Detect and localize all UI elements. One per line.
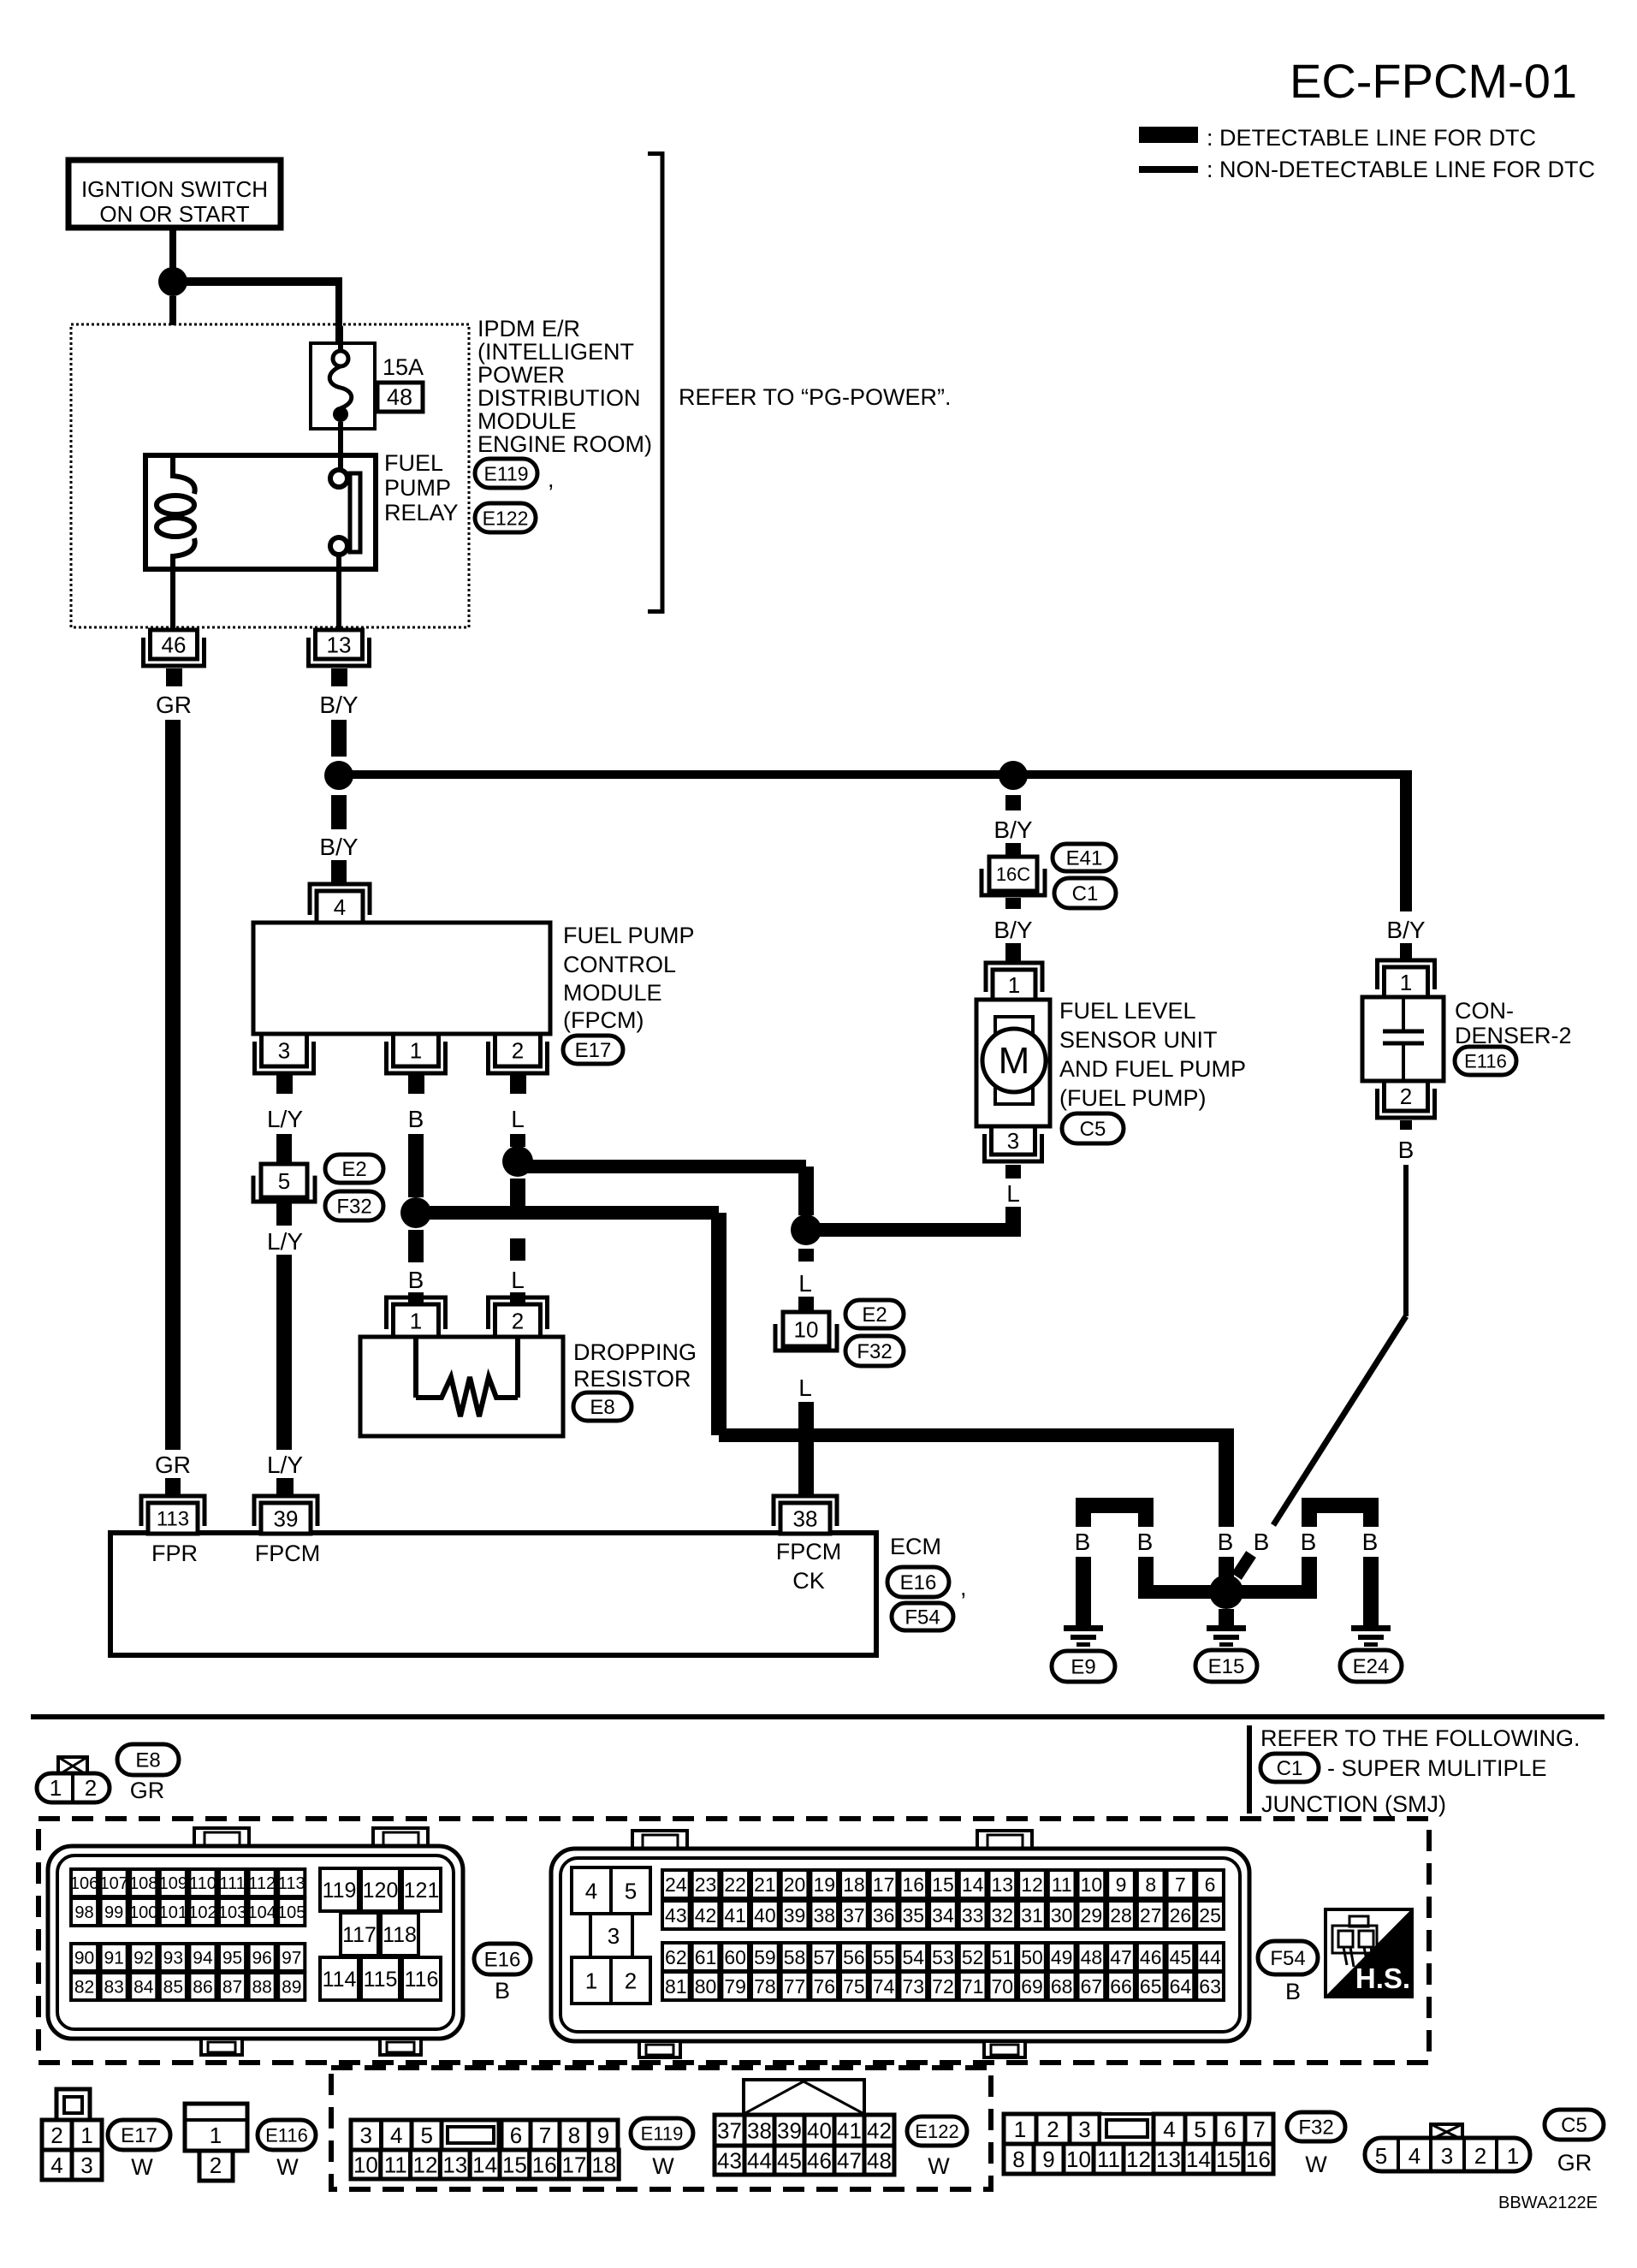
svg-text:PUMP: PUMP [384, 475, 451, 501]
svg-text:MODULE: MODULE [563, 980, 662, 1006]
wire junction down to IPDM coil [169, 296, 176, 325]
svg-text:B: B [1398, 1137, 1415, 1163]
svg-text:108: 108 [129, 1874, 157, 1893]
svg-text:84: 84 [133, 1978, 154, 1998]
condenser connector 2 [1378, 1081, 1435, 1130]
svg-text:E17: E17 [121, 2124, 157, 2147]
connector C5 bowtie symbol [1431, 2124, 1462, 2140]
svg-text:15: 15 [1216, 2146, 1241, 2172]
connector E116 oval id [258, 2120, 316, 2150]
svg-text:E17: E17 [575, 1039, 612, 1062]
svg-text:106: 106 [70, 1874, 98, 1893]
wire L/Y below connector 5 [276, 1202, 292, 1226]
condenser-2 body [1362, 997, 1444, 1081]
svg-text:2: 2 [85, 1775, 97, 1801]
svg-text:82: 82 [74, 1978, 94, 1998]
svg-text:F32: F32 [336, 1196, 371, 1219]
note refer to PG-POWER [679, 384, 952, 410]
svg-text:IPDM E/R: IPDM E/R [477, 316, 580, 341]
svg-text:120: 120 [363, 1879, 399, 1903]
connector 16C SMJ [982, 857, 1045, 895]
svg-text:,: , [548, 466, 555, 492]
connector E2 oval near 5 [325, 1155, 383, 1183]
svg-text:RESISTOR: RESISTOR [573, 1366, 691, 1392]
IPDM label [477, 316, 652, 457]
fuel pump motor M [982, 1029, 1046, 1092]
svg-text:L: L [511, 1106, 525, 1132]
svg-text:6: 6 [510, 2123, 522, 2148]
E16 grid right rows [320, 1868, 441, 2000]
pin 13 of IPDM [309, 630, 370, 686]
label B/Y above condenser [1386, 917, 1425, 943]
svg-text:42: 42 [695, 1904, 717, 1927]
svg-text:12: 12 [1126, 2146, 1151, 2172]
svg-text:104: 104 [247, 1903, 276, 1922]
svg-text:B/Y: B/Y [319, 834, 358, 860]
figure code BBWA2122E [1498, 2194, 1598, 2212]
svg-text:15A: 15A [383, 354, 424, 380]
svg-text:15: 15 [932, 1873, 954, 1896]
svg-text:32: 32 [992, 1904, 1014, 1927]
svg-text:E41: E41 [1066, 847, 1103, 870]
svg-text:B: B [1075, 1529, 1091, 1555]
wire B/Y to condenser [1400, 771, 1412, 911]
ground E9 symbol [1064, 1625, 1103, 1647]
wire right bridge left leg upper [1302, 1513, 1317, 1527]
svg-text:1: 1 [585, 1968, 597, 1993]
condenser connector 1 [1378, 960, 1435, 997]
connector E17 oval [563, 1036, 623, 1064]
svg-text:119: 119 [323, 1879, 357, 1903]
svg-text:1: 1 [1507, 2143, 1519, 2169]
svg-text:47: 47 [837, 2147, 862, 2173]
node L junction [502, 1146, 533, 1177]
svg-text:19: 19 [813, 1873, 835, 1896]
label L/Y below pin 3 [267, 1106, 303, 1132]
label B/Y [319, 692, 358, 718]
svg-text:47: 47 [1110, 1946, 1132, 1968]
svg-text:1: 1 [410, 1308, 422, 1333]
svg-text:1: 1 [410, 1037, 422, 1063]
svg-text:B/Y: B/Y [993, 917, 1032, 943]
svg-text:100: 100 [129, 1903, 157, 1922]
condenser label [1455, 998, 1572, 1048]
svg-text:96: 96 [252, 1949, 271, 1968]
connector E16 oval id [474, 1944, 531, 1974]
connector F54 oval [892, 1603, 953, 1630]
svg-text:5: 5 [1194, 2117, 1206, 2142]
connector E17 face [42, 2089, 102, 2180]
svg-text:109: 109 [159, 1874, 187, 1893]
fuel pump outer box [976, 1000, 1050, 1126]
wire L pump horizontal [806, 1223, 1013, 1237]
wire B to E9 lower [1076, 1557, 1091, 1625]
svg-text:F54: F54 [905, 1606, 940, 1630]
svg-text:B: B [495, 1978, 510, 2004]
svg-text:43: 43 [717, 2147, 742, 2173]
svg-text:112: 112 [248, 1874, 276, 1893]
node B/Y junction at fuel pump branch [999, 761, 1028, 790]
label L below connector 10 [798, 1374, 812, 1401]
label B/Y above connector 4 [319, 834, 358, 860]
legend detectable line sample [1139, 127, 1198, 143]
pin 39 of ECM [254, 1496, 317, 1534]
fuse rating 15A [383, 354, 424, 380]
svg-text:24: 24 [665, 1873, 687, 1896]
svg-text:F32: F32 [1298, 2117, 1333, 2140]
wire L pin2 down [510, 1134, 525, 1147]
svg-text:11: 11 [1052, 1873, 1072, 1896]
svg-text:3: 3 [360, 2123, 372, 2148]
wire L corner down to node [798, 1167, 814, 1215]
svg-text:10: 10 [353, 2152, 378, 2177]
wire B condenser thin [1403, 1165, 1409, 1316]
svg-text:69: 69 [1021, 1975, 1043, 1998]
svg-text:35: 35 [902, 1904, 924, 1927]
label W for E17 [131, 2154, 153, 2180]
svg-text:B: B [1362, 1529, 1379, 1555]
svg-text:49: 49 [1051, 1946, 1073, 1968]
svg-text:B/Y: B/Y [319, 692, 358, 718]
svg-text:L/Y: L/Y [267, 1106, 303, 1132]
pin 2 of FPCM [489, 1034, 548, 1094]
svg-text:E122: E122 [483, 507, 529, 529]
svg-text:L: L [1006, 1180, 1020, 1207]
svg-text:20: 20 [784, 1873, 806, 1896]
wire GR stub to pin 113 [165, 1478, 181, 1496]
svg-text:7: 7 [1253, 2117, 1265, 2142]
connector F54 oval id [1258, 1941, 1318, 1974]
svg-text:23: 23 [695, 1873, 717, 1896]
svg-text:H.S.: H.S. [1355, 1962, 1410, 1994]
svg-text:102: 102 [188, 1903, 216, 1922]
connector E119 face [351, 2120, 619, 2179]
svg-text:BBWA2122E: BBWA2122E [1498, 2194, 1598, 2212]
fuse 15A 48 box [311, 343, 375, 429]
F54 grid top bank [662, 1870, 1224, 1929]
label L below pump [1006, 1180, 1020, 1207]
label B E9 [1075, 1529, 1091, 1555]
svg-text:B: B [1301, 1529, 1317, 1555]
label GR for E8 [130, 1778, 165, 1803]
wire stub pin 39 [278, 1478, 294, 1496]
fuse number 48 box [377, 383, 423, 412]
wire junction to IPDM fuse (horizontal) [173, 277, 342, 286]
svg-text:11: 11 [384, 2152, 407, 2177]
resistor element R [416, 1337, 518, 1416]
svg-text:B/Y: B/Y [1386, 917, 1425, 943]
label GR [156, 692, 192, 718]
dropping resistor box [360, 1337, 563, 1436]
svg-text:B: B [1254, 1529, 1270, 1555]
svg-text:18: 18 [843, 1873, 865, 1896]
svg-text:,: , [960, 1575, 967, 1600]
svg-text:58: 58 [784, 1946, 806, 1968]
svg-text:M: M [999, 1040, 1030, 1082]
wire B/Y below 16C [1005, 898, 1021, 909]
svg-text:C1: C1 [1277, 1757, 1303, 1780]
svg-text:48: 48 [387, 384, 412, 410]
node L junction to ECM [791, 1214, 821, 1245]
svg-text:ON OR START: ON OR START [99, 201, 249, 227]
svg-text:78: 78 [754, 1975, 776, 1998]
svg-text:99: 99 [104, 1903, 123, 1922]
svg-text:13: 13 [1156, 2146, 1181, 2172]
svg-text:2: 2 [50, 2123, 62, 2148]
svg-text:(INTELLIGENT: (INTELLIGENT [477, 339, 634, 365]
svg-text:41: 41 [837, 2117, 862, 2143]
label B above resistor [408, 1267, 424, 1293]
svg-text:115: 115 [364, 1968, 398, 1992]
wire B left bridge to junction [1138, 1557, 1226, 1599]
svg-text:W: W [1305, 2152, 1327, 2177]
svg-text:- SUPER MULITIPLE: - SUPER MULITIPLE [1327, 1755, 1547, 1781]
svg-text:48: 48 [1081, 1946, 1103, 1968]
svg-text:4: 4 [334, 894, 346, 920]
H.S. hand symbol logo [1326, 1909, 1412, 1997]
svg-text:4: 4 [585, 1878, 597, 1903]
svg-text:1: 1 [80, 2123, 92, 2148]
label L/Y mid [267, 1228, 303, 1255]
connector E116 face [185, 2104, 247, 2181]
pin 1 of FPCM [387, 1034, 446, 1094]
svg-text:9: 9 [1042, 2146, 1054, 2172]
svg-text:45: 45 [1170, 1946, 1192, 1968]
svg-text:77: 77 [784, 1975, 806, 1998]
wire B/Y distribution horizontal [339, 770, 1412, 779]
svg-text:86: 86 [193, 1978, 212, 1998]
ECM label [890, 1534, 941, 1559]
svg-text:3: 3 [80, 2152, 92, 2178]
svg-text:30: 30 [1051, 1904, 1073, 1927]
svg-text:37: 37 [717, 2117, 742, 2143]
svg-text:81: 81 [665, 1975, 687, 1998]
svg-text:E8: E8 [590, 1396, 614, 1419]
svg-text:10: 10 [1081, 1873, 1103, 1896]
svg-text:40: 40 [754, 1904, 776, 1927]
svg-text:57: 57 [813, 1946, 835, 1968]
wire B right bridge left leg [1302, 1557, 1317, 1599]
capacitor symbol [1383, 999, 1424, 1079]
svg-text:101: 101 [159, 1903, 187, 1922]
svg-text:10: 10 [794, 1316, 819, 1342]
wire L/Y pin3 to connector 5 [276, 1134, 292, 1164]
svg-text:44: 44 [747, 2147, 772, 2173]
label FPCM CK pin38 [776, 1539, 842, 1594]
connector E8 bowtie symbol [58, 1757, 87, 1775]
wire B left bridge right leg upper [1138, 1513, 1154, 1527]
svg-text:76: 76 [813, 1975, 835, 1998]
wire B/Y into connector 4 [331, 860, 347, 885]
label B below pin 1 [408, 1106, 424, 1132]
svg-text:E2: E2 [341, 1158, 366, 1181]
wire B/Y below junction to 16C [1005, 795, 1021, 810]
wire L dash below crossing [510, 1238, 525, 1261]
svg-text:17: 17 [873, 1873, 895, 1896]
svg-text:68: 68 [1051, 1975, 1073, 1998]
svg-text:EC-FPCM-01: EC-FPCM-01 [1290, 54, 1577, 108]
connector E41 oval [1053, 844, 1116, 871]
svg-text:46: 46 [162, 632, 187, 657]
svg-text:FPCM: FPCM [255, 1541, 321, 1566]
svg-text:2: 2 [512, 1037, 524, 1063]
svg-text:14: 14 [962, 1873, 984, 1896]
pin 46 of IPDM [144, 630, 205, 686]
svg-text:5: 5 [625, 1878, 637, 1903]
ignition switch box [68, 160, 281, 228]
wire L junction to crossing [510, 1179, 525, 1206]
svg-text:E119: E119 [641, 2123, 684, 2144]
svg-text:34: 34 [932, 1904, 954, 1927]
wire fuse to relay contact [338, 422, 343, 470]
E16 grid top-left [70, 1869, 306, 1926]
node B/Y junction [324, 761, 353, 790]
svg-text:71: 71 [962, 1975, 984, 1998]
ground E24 symbol [1351, 1625, 1391, 1647]
svg-text:94: 94 [193, 1949, 213, 1968]
svg-text:E24: E24 [1353, 1655, 1390, 1678]
svg-text:B: B [408, 1267, 424, 1293]
svg-text:64: 64 [1170, 1975, 1192, 1998]
svg-text:F54: F54 [1270, 1947, 1305, 1970]
svg-text:(FPCM): (FPCM) [563, 1007, 644, 1033]
svg-text:SENSOR UNIT: SENSOR UNIT [1059, 1027, 1218, 1053]
svg-text:48: 48 [867, 2147, 892, 2173]
wire B to E24 ground [1363, 1557, 1379, 1625]
svg-text:105: 105 [277, 1903, 305, 1922]
pin 3 of FPCM [255, 1034, 314, 1094]
svg-text:118: 118 [383, 1923, 417, 1947]
svg-text:29: 29 [1081, 1904, 1103, 1927]
svg-text:90: 90 [74, 1949, 94, 1968]
svg-text:13: 13 [327, 632, 352, 657]
pump connector 3 [985, 1126, 1042, 1176]
connector E8 face [37, 1773, 110, 1802]
connector E122 oval id [907, 2117, 967, 2146]
svg-text:7: 7 [539, 2123, 551, 2148]
fuel pump inner frame [995, 1017, 1033, 1104]
connector C5 oval [1062, 1113, 1124, 1143]
svg-text:46: 46 [807, 2147, 832, 2173]
svg-text:39: 39 [274, 1505, 299, 1531]
svg-text:39: 39 [777, 2117, 802, 2143]
svg-text:36: 36 [873, 1904, 895, 1927]
svg-text:E119: E119 [483, 462, 528, 484]
svg-text:111: 111 [219, 1874, 245, 1893]
svg-text:RELAY: RELAY [384, 500, 459, 525]
svg-text:C5: C5 [1080, 1118, 1106, 1141]
svg-text:27: 27 [1140, 1904, 1162, 1927]
svg-text:L: L [798, 1374, 812, 1401]
svg-text:121: 121 [404, 1879, 440, 1903]
wire B to ground junction dot [1219, 1557, 1234, 1577]
svg-text:9: 9 [597, 2123, 609, 2148]
svg-text:14: 14 [1186, 2146, 1211, 2172]
wire B diagonal dash to ground junction [1237, 1554, 1251, 1576]
label B on diagonal [1254, 1529, 1270, 1555]
connector E17 oval id [108, 2120, 170, 2150]
wire B/Y stub into 16C [1005, 843, 1021, 858]
svg-text:E8: E8 [135, 1749, 160, 1772]
svg-text:33: 33 [962, 1904, 984, 1927]
svg-text:62: 62 [665, 1946, 687, 1968]
svg-text:41: 41 [724, 1904, 746, 1927]
svg-text:38: 38 [813, 1904, 835, 1927]
label FPCM pin39 [255, 1541, 321, 1566]
svg-text:C5: C5 [1561, 2114, 1587, 2137]
connector E116 oval [1455, 1047, 1516, 1075]
dashed box E119 E122 [331, 2068, 991, 2189]
svg-text:74: 74 [873, 1975, 895, 1998]
svg-text:80: 80 [695, 1975, 717, 1998]
svg-text:8: 8 [1012, 2146, 1024, 2172]
svg-text:14: 14 [472, 2152, 497, 2177]
svg-text:66: 66 [1110, 1975, 1132, 1998]
svg-text:B: B [1137, 1529, 1154, 1555]
F54 grid bottom bank [662, 1943, 1224, 2000]
svg-text:B: B [1285, 1979, 1301, 2004]
dropping resistor label [573, 1339, 697, 1392]
connector 10 inline [775, 1312, 837, 1351]
svg-text:L: L [798, 1270, 812, 1297]
label W for E116 [276, 2154, 299, 2180]
refer to the following note [1249, 1725, 1581, 1814]
svg-text:38: 38 [793, 1505, 818, 1531]
dashed box ECM connectors [39, 1819, 1429, 2063]
svg-text:B/Y: B/Y [993, 816, 1032, 843]
svg-text:8: 8 [1145, 1873, 1156, 1896]
svg-text:13: 13 [992, 1873, 1014, 1896]
svg-text:5: 5 [421, 2123, 433, 2148]
connector E15 oval [1195, 1650, 1257, 1682]
svg-text:3: 3 [1078, 2117, 1090, 2142]
resistor connector 2 [489, 1297, 548, 1337]
node B junction [400, 1197, 431, 1228]
wire junction to right bridge [1226, 1585, 1317, 1599]
label B E24 [1362, 1529, 1379, 1555]
svg-text:116: 116 [405, 1968, 439, 1992]
svg-text:97: 97 [282, 1949, 301, 1968]
connector E8 oval [117, 1744, 179, 1775]
svg-text:GR: GR [130, 1778, 165, 1803]
svg-text:114: 114 [323, 1968, 357, 1992]
F54 grid left group [572, 1867, 650, 2004]
svg-text:CONTROL: CONTROL [563, 952, 676, 977]
svg-text:W: W [131, 2154, 153, 2180]
svg-text:1: 1 [50, 1775, 62, 1801]
svg-text:88: 88 [252, 1978, 271, 1998]
svg-text:16: 16 [1246, 2146, 1271, 2172]
svg-text:POWER: POWER [477, 362, 565, 388]
connector C5 oval id [1545, 2110, 1604, 2140]
IPDM E/R box [71, 324, 469, 627]
connector 4 of FPCM [310, 884, 370, 923]
ground E15 symbol [1207, 1625, 1246, 1647]
svg-text:16: 16 [532, 2152, 557, 2177]
wire B diagonal [1273, 1316, 1406, 1525]
svg-text:16: 16 [902, 1873, 924, 1896]
svg-text:21: 21 [754, 1873, 776, 1896]
connector F32 face [1004, 2114, 1273, 2174]
connector E119 oval id [631, 2118, 693, 2148]
wire B down mid [711, 1213, 727, 1435]
label B/Y above pump [993, 917, 1032, 943]
svg-text:28: 28 [1110, 1904, 1132, 1927]
connector C1 oval SMJ [1260, 1754, 1547, 1782]
legend detectable line text [1207, 125, 1536, 151]
wire B stub into resistor connector 1 [408, 1292, 424, 1303]
svg-text:FPCM: FPCM [776, 1539, 842, 1564]
